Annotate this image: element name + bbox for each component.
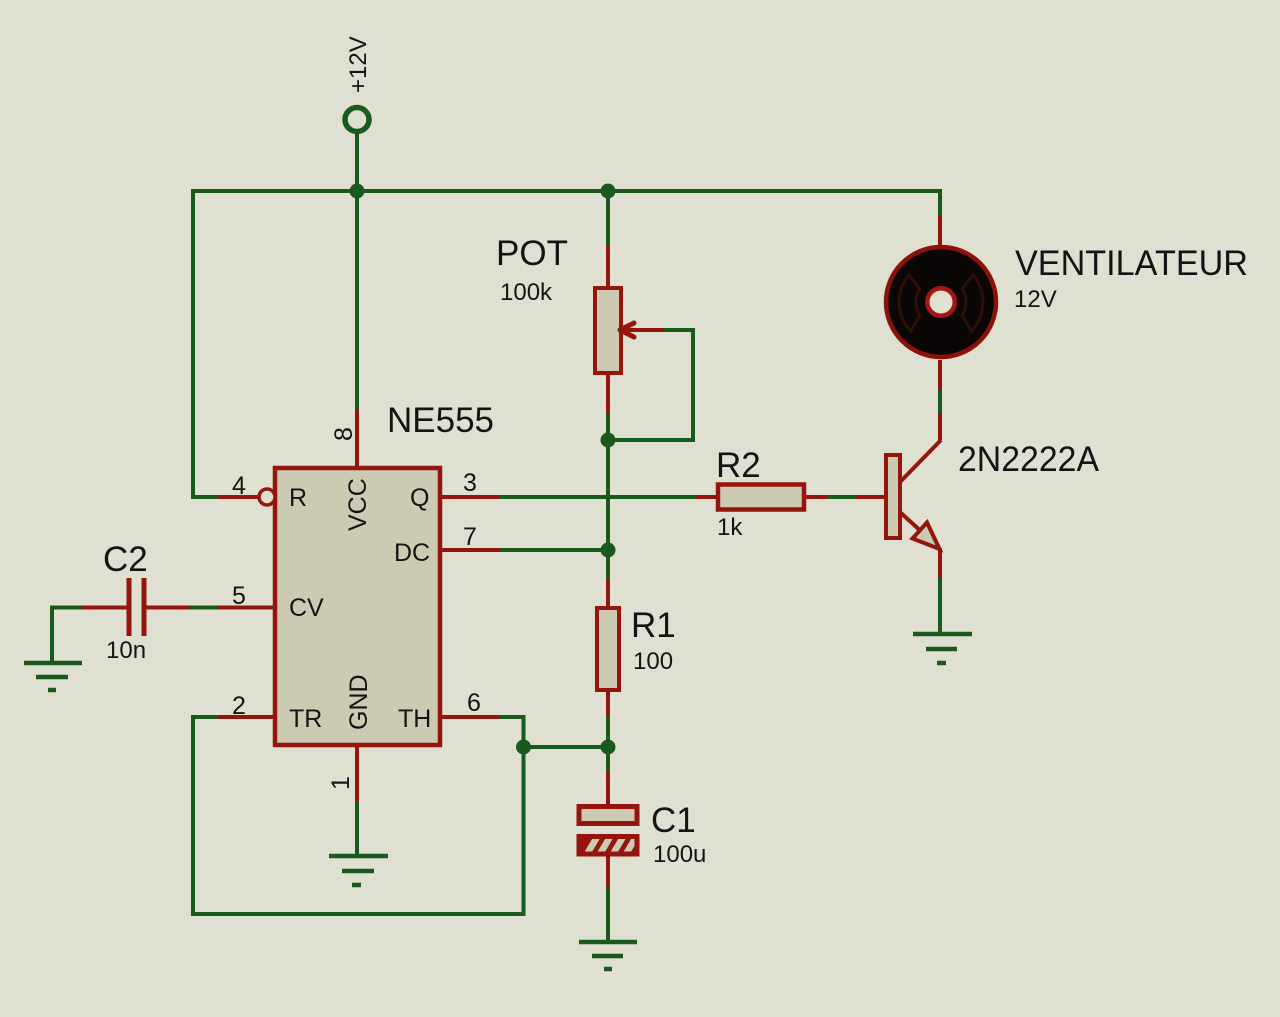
wire green to ground: [606, 887, 610, 942]
svg-text:VCC: VCC: [344, 478, 372, 531]
svg-text:100u: 100u: [653, 841, 706, 868]
svg-text:GND: GND: [345, 674, 373, 730]
pin 1 stub red: [355, 745, 359, 801]
body: [275, 468, 440, 745]
svg-text:100k: 100k: [500, 279, 553, 306]
svg-text:1: 1: [327, 776, 355, 790]
wire: C2 to ground: [50, 606, 54, 664]
svg-text:1k: 1k: [717, 514, 743, 541]
svg-text:CV: CV: [289, 594, 324, 622]
svg-text:8: 8: [330, 427, 358, 441]
svg-text:TH: TH: [398, 705, 431, 733]
wire: POT bottom green: [606, 413, 610, 440]
pin 4 stub red with bubble: [218, 495, 259, 499]
ground under C2: [24, 663, 82, 690]
body: [597, 608, 619, 690]
wire: top rail: [193, 189, 940, 193]
wire green above: [606, 550, 610, 580]
svg-text:R2: R2: [716, 446, 761, 485]
svg-text:10n: 10n: [106, 637, 146, 664]
top plate: [579, 807, 637, 824]
svg-text:12V: 12V: [1014, 286, 1057, 313]
svg-text:7: 7: [463, 523, 477, 551]
node: junction TH/TR loop: [516, 740, 531, 755]
pin stub bottom: [606, 373, 610, 413]
wire: junction down across Q wire to DC junction: [606, 440, 610, 550]
svg-text:R: R: [289, 484, 307, 512]
node: junction DC/R1: [601, 543, 616, 558]
pin 2 stub red: [218, 715, 275, 719]
svg-text:NE555: NE555: [387, 401, 494, 440]
collector vertical red: [938, 413, 942, 440]
transistor Q1 2N2222A: [856, 413, 1100, 578]
wire: junction to C1 junction: [524, 745, 609, 749]
node: junction rail/POT: [601, 184, 616, 199]
potentiometer RV1 POT 100k: [496, 234, 665, 413]
pin stub right: [146, 606, 190, 610]
svg-text:3: 3: [463, 469, 477, 497]
hub ring: [927, 288, 955, 316]
resistor R2 1k: [695, 446, 828, 541]
outer red ring: [886, 247, 996, 357]
wire: left vertical rail to pin 4: [193, 189, 218, 497]
pin 8 stub red: [355, 410, 359, 468]
capacitor C2 10n: [52, 540, 218, 664]
svg-text:R1: R1: [631, 606, 676, 645]
svg-text:DC: DC: [394, 539, 430, 567]
emitter arrowhead: [913, 523, 940, 550]
node: junction POT/wiper: [601, 433, 616, 448]
wire: pin6 TH corner green: [499, 717, 524, 747]
IC U1 NE555: [218, 401, 499, 801]
ground under transistor: [913, 634, 972, 663]
wire green middle: [190, 606, 218, 610]
wire green from ground: [52, 606, 82, 610]
wiper arrow: [621, 328, 665, 332]
wire: pin1 to ground green: [355, 801, 359, 856]
body: [595, 288, 621, 373]
emitter vertical red: [938, 548, 942, 578]
svg-text:100: 100: [633, 648, 673, 675]
bottom plate hatched: [579, 837, 637, 855]
body: [718, 485, 804, 510]
svg-text:VENTILATEUR: VENTILATEUR: [1015, 244, 1248, 283]
base bar: [886, 455, 900, 538]
svg-text:Q: Q: [410, 484, 429, 512]
resistor R1 100: [597, 550, 676, 747]
black disc: [884, 245, 998, 359]
base pin stub: [856, 495, 886, 499]
wire: rail to POT green: [606, 191, 610, 246]
pin stub right: [804, 495, 828, 499]
emitter diagonal: [901, 513, 924, 534]
wire: fan top red stub: [938, 215, 942, 248]
right plate: [142, 578, 147, 636]
ground under C1: [579, 942, 637, 969]
svg-text:C1: C1: [651, 801, 696, 840]
wire: VCC stub green: [355, 191, 359, 410]
ground under pin 1: [329, 856, 388, 885]
wire: emitter to ground green: [938, 578, 942, 634]
wire green from junction: [606, 747, 610, 772]
wire green below: [606, 716, 610, 747]
left plate: [127, 578, 132, 636]
wire: pin3 Q to R2 green: [499, 495, 695, 499]
pin 7 stub red: [440, 548, 499, 552]
collector diagonal: [901, 440, 941, 481]
wire: wiper loop green: [608, 330, 693, 440]
pin stub to top plate: [606, 772, 610, 806]
pin 6 stub red: [440, 715, 499, 719]
pin stub below: [606, 854, 610, 887]
right blade outline: [962, 275, 983, 331]
wire: fan bottom red stub: [938, 360, 942, 390]
pin stub left: [82, 606, 127, 610]
capacitor C1 100u polarized: [579, 747, 706, 942]
pin 5 stub red: [218, 606, 275, 610]
left blade outline: [899, 275, 920, 331]
svg-text:C2: C2: [103, 540, 148, 579]
node: junction rail/VCC: [350, 184, 365, 199]
reset bubble: [259, 489, 275, 505]
node: junction R1/C1: [601, 740, 616, 755]
wire: rail corner to fan: [938, 191, 940, 215]
pin stub top: [606, 246, 610, 288]
pin stub top: [606, 580, 610, 608]
wire: pin2 TR loop green: [193, 717, 524, 914]
svg-text:6: 6: [467, 689, 481, 717]
wire: pin7 DC to junction green: [499, 548, 608, 552]
pin stub left: [695, 495, 718, 499]
wire: R2 to base green: [828, 495, 856, 499]
svg-text:2N2222A: 2N2222A: [958, 440, 1100, 479]
svg-text:+12V: +12V: [345, 36, 372, 93]
pin stub bottom: [606, 690, 610, 716]
pin 3 stub red: [440, 495, 499, 499]
power terminal +12V: [345, 36, 372, 131]
wire: +12V terminal to rail: [355, 132, 359, 191]
wire: collector to fan green: [938, 390, 942, 413]
fan motor VENTILATEUR 12V: [884, 244, 1248, 359]
svg-text:TR: TR: [289, 705, 322, 733]
svg-text:POT: POT: [496, 234, 568, 273]
